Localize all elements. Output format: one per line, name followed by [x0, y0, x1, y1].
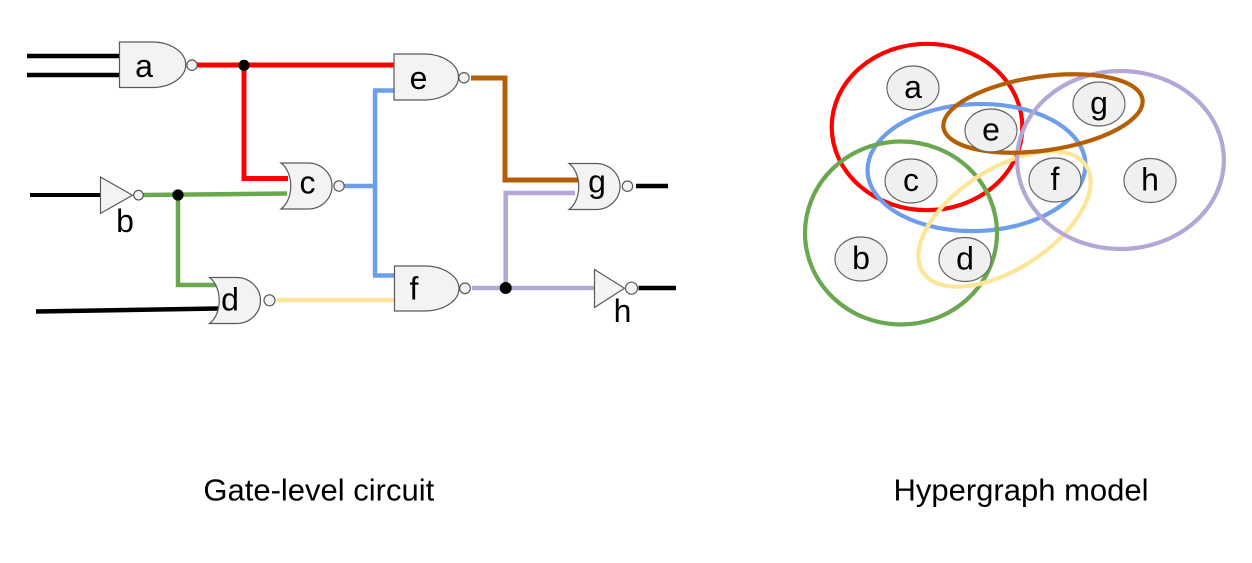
wire: net c (blue), gate c output bus to gates e and f	[345, 184, 376, 189]
wire: net a (red), gate a output to gate e input	[197, 63, 394, 68]
node c	[885, 159, 937, 203]
node d	[939, 238, 991, 282]
hyperedge: net e (brown)	[938, 63, 1147, 164]
svg-text:g: g	[588, 164, 606, 200]
svg-text:e: e	[410, 60, 428, 96]
hyperedge: net a (red)	[832, 44, 1023, 210]
nand gate f	[395, 266, 471, 311]
wire: input net to inverter b	[30, 193, 101, 197]
nor gate g	[569, 164, 633, 210]
hyperedge: net b (green)	[805, 142, 997, 325]
nor gate c	[281, 163, 344, 209]
inverter b	[101, 177, 144, 239]
nand gate a	[120, 42, 198, 88]
wire: net d (yellow), gate d output to gate f input	[277, 298, 396, 303]
node f	[1029, 158, 1081, 202]
wire: output net of gate g	[636, 184, 668, 189]
wire: net a branch (red) down to gate c input	[244, 65, 288, 179]
node g	[1073, 82, 1125, 126]
node e	[965, 109, 1017, 152]
svg-text:d: d	[221, 282, 239, 318]
svg-text:Gate-level circuit: Gate-level circuit	[203, 473, 434, 508]
hyperedge: net c (blue)	[865, 100, 1087, 235]
svg-text:d: d	[956, 241, 974, 277]
svg-text:Hypergraph model: Hypergraph model	[893, 472, 1148, 507]
svg-text:a: a	[135, 48, 153, 84]
wire: net b branch (green) down to gate d input	[178, 195, 216, 285]
svg-text:c: c	[903, 162, 919, 198]
wire: net c stub (blue) into gate e	[373, 88, 395, 93]
svg-text:h: h	[614, 293, 632, 329]
svg-text:g: g	[1090, 85, 1108, 121]
wire: input net to gate d	[36, 309, 218, 312]
svg-text:h: h	[1141, 162, 1159, 198]
svg-text:a: a	[904, 69, 922, 105]
wire: net f branch (purple) up to gate g input	[506, 193, 575, 288]
wire: net f (purple), gate f output to inverter h input	[472, 286, 595, 291]
nand gate e	[394, 54, 469, 100]
svg-text:f: f	[1051, 161, 1060, 197]
wire: net c stub (blue) into gate f	[373, 273, 395, 278]
junction: net b at (178,195)	[172, 189, 183, 200]
svg-text:b: b	[852, 240, 870, 276]
hyperedge: net f (purple)	[1017, 71, 1224, 249]
junction: net a at (244,65)	[238, 60, 249, 71]
wire: input net to gate a (lower)	[27, 73, 120, 78]
wire: output net of inverter h	[639, 286, 677, 291]
node b	[835, 237, 887, 281]
junction: net f at (505.7,288)	[500, 282, 512, 294]
wire: net b (green), inverter b output to gate c input	[144, 194, 288, 196]
inverter h	[595, 270, 638, 330]
svg-text:c: c	[300, 165, 316, 201]
svg-text:f: f	[410, 271, 419, 307]
svg-text:e: e	[982, 112, 1000, 148]
node a	[887, 66, 939, 110]
hyperedge: net d (yellow)	[895, 124, 1113, 314]
svg-text:b: b	[116, 203, 134, 239]
wire: input net to gate a (upper)	[27, 54, 120, 59]
node h	[1124, 159, 1176, 203]
nor gate d	[210, 278, 276, 324]
wire: net c vertical trunk (blue)	[373, 91, 378, 276]
wire: net e (brown), gate e output to gate g input	[471, 78, 578, 180]
